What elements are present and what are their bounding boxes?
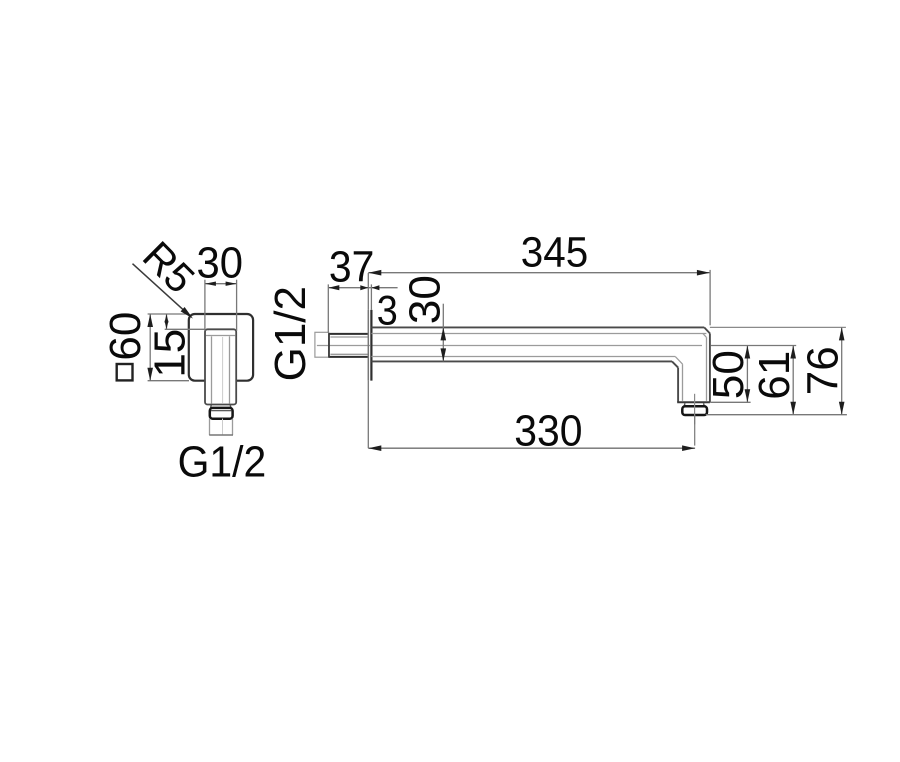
svg-text:37: 37 bbox=[329, 243, 375, 292]
svg-text:61: 61 bbox=[750, 351, 799, 400]
svg-text:3: 3 bbox=[377, 288, 398, 334]
svg-text:30: 30 bbox=[196, 239, 242, 288]
svg-text:60: 60 bbox=[101, 312, 150, 361]
svg-text:76: 76 bbox=[798, 346, 847, 395]
svg-text:330: 330 bbox=[514, 407, 582, 456]
svg-text:50: 50 bbox=[704, 350, 753, 399]
svg-text:15: 15 bbox=[146, 329, 195, 378]
svg-text:G1/2: G1/2 bbox=[178, 438, 267, 487]
svg-text:30: 30 bbox=[400, 275, 449, 324]
svg-text:G1/2: G1/2 bbox=[266, 286, 315, 381]
svg-text:345: 345 bbox=[521, 227, 588, 275]
